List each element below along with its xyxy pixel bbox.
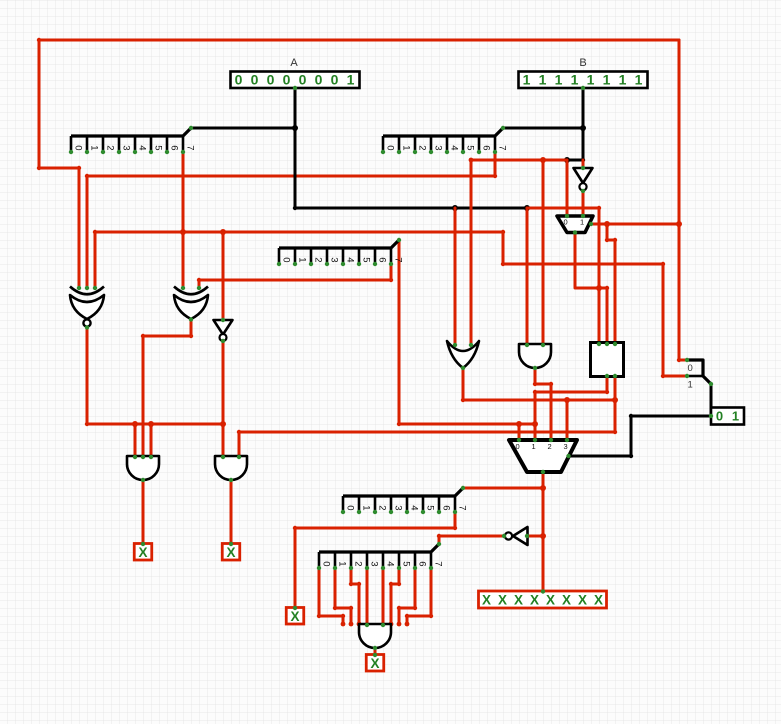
svg-text:1: 1 <box>571 72 579 88</box>
svg-text:X: X <box>594 593 603 608</box>
splitter S5 (bottom) <box>317 542 444 570</box>
wire end <box>405 622 410 627</box>
svg-text:A: A <box>290 57 298 69</box>
svg-text:0: 0 <box>251 72 259 88</box>
wire end <box>349 622 354 627</box>
inverter U2 (under B) <box>574 166 593 193</box>
svg-text:4: 4 <box>449 145 460 150</box>
wire to mux in0 <box>518 424 521 440</box>
wire red B bus left <box>471 159 567 162</box>
wire end <box>389 622 394 627</box>
svg-text:X: X <box>578 593 587 608</box>
svg-text:3: 3 <box>329 257 340 262</box>
junction corner <box>197 278 201 282</box>
svg-text:B: B <box>579 57 586 69</box>
junction corner <box>341 614 345 618</box>
multiplexer U4 (4:1) <box>509 438 577 474</box>
wire A7 to NOT input <box>222 232 225 320</box>
svg-text:0: 0 <box>345 505 356 510</box>
svg-text:5: 5 <box>425 505 436 510</box>
svg-text:2: 2 <box>417 145 428 150</box>
wire XOR output <box>143 320 191 456</box>
wire to mux in3 <box>566 400 569 440</box>
wire mux4 select <box>542 472 545 592</box>
junction corner <box>629 414 633 418</box>
input pin A (8-bit) <box>231 57 360 90</box>
junction corner <box>533 382 537 386</box>
wire XNOR output <box>87 328 223 424</box>
wire sp5 bit3 <box>366 568 369 624</box>
svg-text:5: 5 <box>361 257 372 262</box>
junction corner <box>37 166 41 170</box>
wire to AND mid in1 <box>526 208 529 344</box>
svg-text:0: 0 <box>267 72 275 88</box>
junction <box>540 157 546 163</box>
svg-text:1: 1 <box>337 561 348 566</box>
svg-text:0: 0 <box>283 72 291 88</box>
svg-text:0: 0 <box>385 145 396 150</box>
junction corner <box>661 262 665 266</box>
junction corner <box>77 166 81 170</box>
splitter S4 <box>341 486 468 514</box>
svg-text:1: 1 <box>732 409 739 424</box>
wire B bus down <box>567 88 583 160</box>
and gate G5 (middle) <box>519 343 551 370</box>
junction <box>132 421 138 427</box>
svg-text:4: 4 <box>385 561 396 566</box>
output pin X3 <box>286 606 304 624</box>
junction corner <box>469 158 474 163</box>
svg-text:2: 2 <box>353 561 364 566</box>
junction <box>516 421 522 427</box>
junction corner <box>397 606 401 610</box>
svg-text:X: X <box>498 593 507 608</box>
svg-text:7: 7 <box>457 505 468 510</box>
wire end <box>397 622 402 627</box>
svg-text:0: 0 <box>281 257 292 262</box>
svg-text:4: 4 <box>409 505 420 510</box>
junction corner <box>605 238 609 242</box>
splitter SM (middle) <box>277 238 404 266</box>
wire NOT output <box>222 341 225 456</box>
splitter SA (input A fanout) <box>69 126 196 154</box>
junction corner <box>461 398 465 402</box>
xor gate G2 <box>174 286 208 322</box>
output pin X1 <box>134 542 152 560</box>
junction corner <box>397 422 401 426</box>
wire A7 horizontal <box>95 232 687 376</box>
svg-text:1: 1 <box>603 72 611 88</box>
svg-text:X: X <box>530 593 539 608</box>
wire sp5 bit4 <box>382 568 385 624</box>
svg-text:0: 0 <box>516 442 520 451</box>
wire sp5 bit7 <box>407 568 431 624</box>
junction corner <box>453 526 457 530</box>
junction corner <box>413 606 417 610</box>
wire AND2 output <box>230 480 233 544</box>
junction <box>220 229 226 235</box>
wire A bus down <box>295 88 527 208</box>
svg-text:1: 1 <box>688 380 693 391</box>
wire AND1 output <box>142 480 145 544</box>
wire end <box>341 622 346 627</box>
svg-text:0: 0 <box>331 72 339 88</box>
junction corner <box>405 614 409 618</box>
svg-text:2: 2 <box>105 145 116 150</box>
junction corner <box>189 334 193 338</box>
svg-text:X: X <box>290 609 299 624</box>
square component U3 <box>591 342 624 378</box>
junction corner <box>357 582 361 586</box>
wire right main vertical <box>679 40 687 360</box>
wire inverter B output <box>582 190 585 216</box>
wire sp5 bit0 <box>319 568 343 624</box>
svg-text:1: 1 <box>539 72 547 88</box>
output pin X2 <box>222 542 240 560</box>
svg-text:6: 6 <box>481 145 492 150</box>
junction corner <box>333 606 337 610</box>
or gate G4 <box>447 341 479 370</box>
junction corner <box>293 206 297 210</box>
junction corner <box>389 582 393 586</box>
svg-text:1: 1 <box>361 505 372 510</box>
wire red A bus extension <box>527 208 599 344</box>
wire A7 vertical to XOR <box>182 152 185 288</box>
svg-text:1: 1 <box>523 72 531 88</box>
wire to AND mid in2 <box>542 160 545 344</box>
wire sp5 bit6 <box>399 568 415 624</box>
wire B to inverter <box>582 160 585 168</box>
junction corner <box>605 390 609 394</box>
wire splitter4 pin7 <box>295 512 455 608</box>
junction <box>148 421 154 427</box>
svg-text:3: 3 <box>393 505 404 510</box>
junction <box>524 205 530 211</box>
wire to AND1 in1 <box>134 424 137 456</box>
wire splitter01 main <box>710 384 713 416</box>
junction corner <box>397 582 401 586</box>
wire branch to square in3 <box>607 224 615 344</box>
svg-text:2: 2 <box>313 257 324 262</box>
input pin B (8-bit) <box>519 57 648 90</box>
wire mux B select <box>575 233 607 344</box>
wire inverter L input stub <box>527 535 543 538</box>
junction <box>540 485 546 491</box>
junction corner <box>605 286 609 290</box>
wire mux4 output <box>568 416 711 456</box>
svg-text:5: 5 <box>401 561 412 566</box>
junction corner <box>37 38 41 42</box>
junction corner <box>533 390 537 394</box>
svg-text:7: 7 <box>393 257 404 262</box>
svg-text:3: 3 <box>433 145 444 150</box>
xnor gate G1 <box>70 286 104 330</box>
wire sp5 bit1 <box>335 568 351 624</box>
svg-text:1: 1 <box>532 442 536 451</box>
svg-text:0: 0 <box>299 72 307 88</box>
wire mid splitter main <box>399 240 535 424</box>
svg-text:4: 4 <box>345 257 356 262</box>
junction corner <box>677 358 681 362</box>
junction corner <box>349 606 353 610</box>
wire sp5 bit5 <box>391 568 399 624</box>
junction corner <box>581 158 585 162</box>
svg-text:2: 2 <box>377 505 388 510</box>
junction <box>532 421 538 427</box>
junction corner <box>501 262 505 266</box>
svg-text:1: 1 <box>555 72 563 88</box>
wire square out1 <box>535 376 607 440</box>
svg-text:X: X <box>514 593 523 608</box>
input pin 01 (2-bit) <box>709 408 744 425</box>
wire inverter L output <box>439 536 504 544</box>
wire splitter4 main to select <box>463 487 543 490</box>
wire to OR in1 <box>454 208 457 344</box>
junction corner <box>317 614 321 618</box>
wire square out2 <box>239 376 615 456</box>
junction <box>564 157 570 163</box>
wire OR output <box>463 368 615 400</box>
svg-text:5: 5 <box>465 145 476 150</box>
wire top loop left <box>39 40 679 288</box>
junction corner <box>549 382 553 386</box>
svg-text:X: X <box>562 593 571 608</box>
svg-text:6: 6 <box>417 561 428 566</box>
wire end <box>357 622 362 627</box>
junction corner <box>237 430 241 434</box>
junction corner <box>661 374 665 378</box>
wire to OR in2 <box>470 160 473 344</box>
svg-text:X: X <box>370 656 379 671</box>
wire splitter B main <box>503 127 583 130</box>
wire B7 to XNOR <box>87 152 495 288</box>
svg-text:0: 0 <box>688 363 693 374</box>
junction corner <box>493 174 497 178</box>
svg-text:1: 1 <box>619 72 627 88</box>
output pin X4 <box>366 653 384 671</box>
junction corner <box>93 230 97 234</box>
junction <box>580 125 586 131</box>
and gate G8 (bottom) <box>359 623 391 650</box>
svg-text:2: 2 <box>548 442 552 451</box>
svg-text:1: 1 <box>297 257 308 262</box>
output pin XX (8-bit error) <box>479 589 607 608</box>
svg-text:6: 6 <box>169 145 180 150</box>
svg-text:0: 0 <box>564 218 568 227</box>
junction corner <box>613 238 617 242</box>
wire splitter A main <box>191 127 295 130</box>
junction <box>564 397 570 403</box>
svg-text:7: 7 <box>497 145 508 150</box>
svg-text:5: 5 <box>153 145 164 150</box>
wire sp5 bit2 <box>351 568 359 624</box>
svg-text:3: 3 <box>121 145 132 150</box>
junction corner <box>85 174 89 178</box>
junction corner <box>597 206 601 210</box>
junction <box>676 221 682 227</box>
svg-text:X: X <box>482 593 491 608</box>
svg-text:1: 1 <box>580 218 584 227</box>
junction corner <box>349 582 353 586</box>
junction <box>596 285 602 291</box>
svg-text:0: 0 <box>321 561 332 566</box>
junction <box>540 533 546 539</box>
junction corner <box>429 614 433 618</box>
svg-text:6: 6 <box>377 257 388 262</box>
junction <box>452 205 458 211</box>
junction <box>292 125 298 131</box>
wire to mux B in0 <box>566 160 569 216</box>
svg-text:1: 1 <box>587 72 595 88</box>
svg-text:1: 1 <box>347 72 355 88</box>
junction <box>220 421 226 427</box>
svg-text:0: 0 <box>716 409 723 424</box>
junction corner <box>141 334 145 338</box>
svg-text:X: X <box>546 593 555 608</box>
svg-text:7: 7 <box>185 145 196 150</box>
junction corner <box>437 534 441 538</box>
svg-text:3: 3 <box>564 442 568 451</box>
junction corner <box>293 526 297 530</box>
junction <box>612 397 618 403</box>
junction <box>604 221 610 227</box>
svg-text:4: 4 <box>137 145 148 150</box>
wire AND mid output <box>535 368 551 440</box>
junction corner <box>629 454 633 458</box>
svg-text:X: X <box>138 545 147 560</box>
wire AND bottom output <box>374 648 377 655</box>
multiplexer U1 (2:1) <box>557 214 593 235</box>
junction corner <box>389 278 393 282</box>
and gate G7 <box>215 455 247 482</box>
splitter SB (input B fanout) <box>381 126 508 154</box>
svg-text:0: 0 <box>315 72 323 88</box>
svg-text:6: 6 <box>441 505 452 510</box>
svg-text:0: 0 <box>235 72 243 88</box>
inverter U5 (left-facing) <box>502 527 529 545</box>
svg-text:X: X <box>226 545 235 560</box>
svg-text:0: 0 <box>73 145 84 150</box>
svg-text:3: 3 <box>369 561 380 566</box>
svg-text:1: 1 <box>89 145 100 150</box>
svg-text:1: 1 <box>401 145 412 150</box>
wire to AND1 in3 <box>150 424 153 456</box>
and gate G6 <box>127 455 159 482</box>
junction <box>180 229 186 235</box>
not gate G3 (down) <box>214 318 233 343</box>
svg-text:7: 7 <box>433 561 444 566</box>
junction corner <box>613 430 617 434</box>
wire mid7 to XOR in2 <box>199 264 391 288</box>
svg-text:1: 1 <box>635 72 643 88</box>
splitter S01 (2-bit) <box>685 358 713 391</box>
junction corner <box>501 230 505 234</box>
wire mux B output <box>591 223 679 226</box>
junction corner <box>85 422 89 426</box>
